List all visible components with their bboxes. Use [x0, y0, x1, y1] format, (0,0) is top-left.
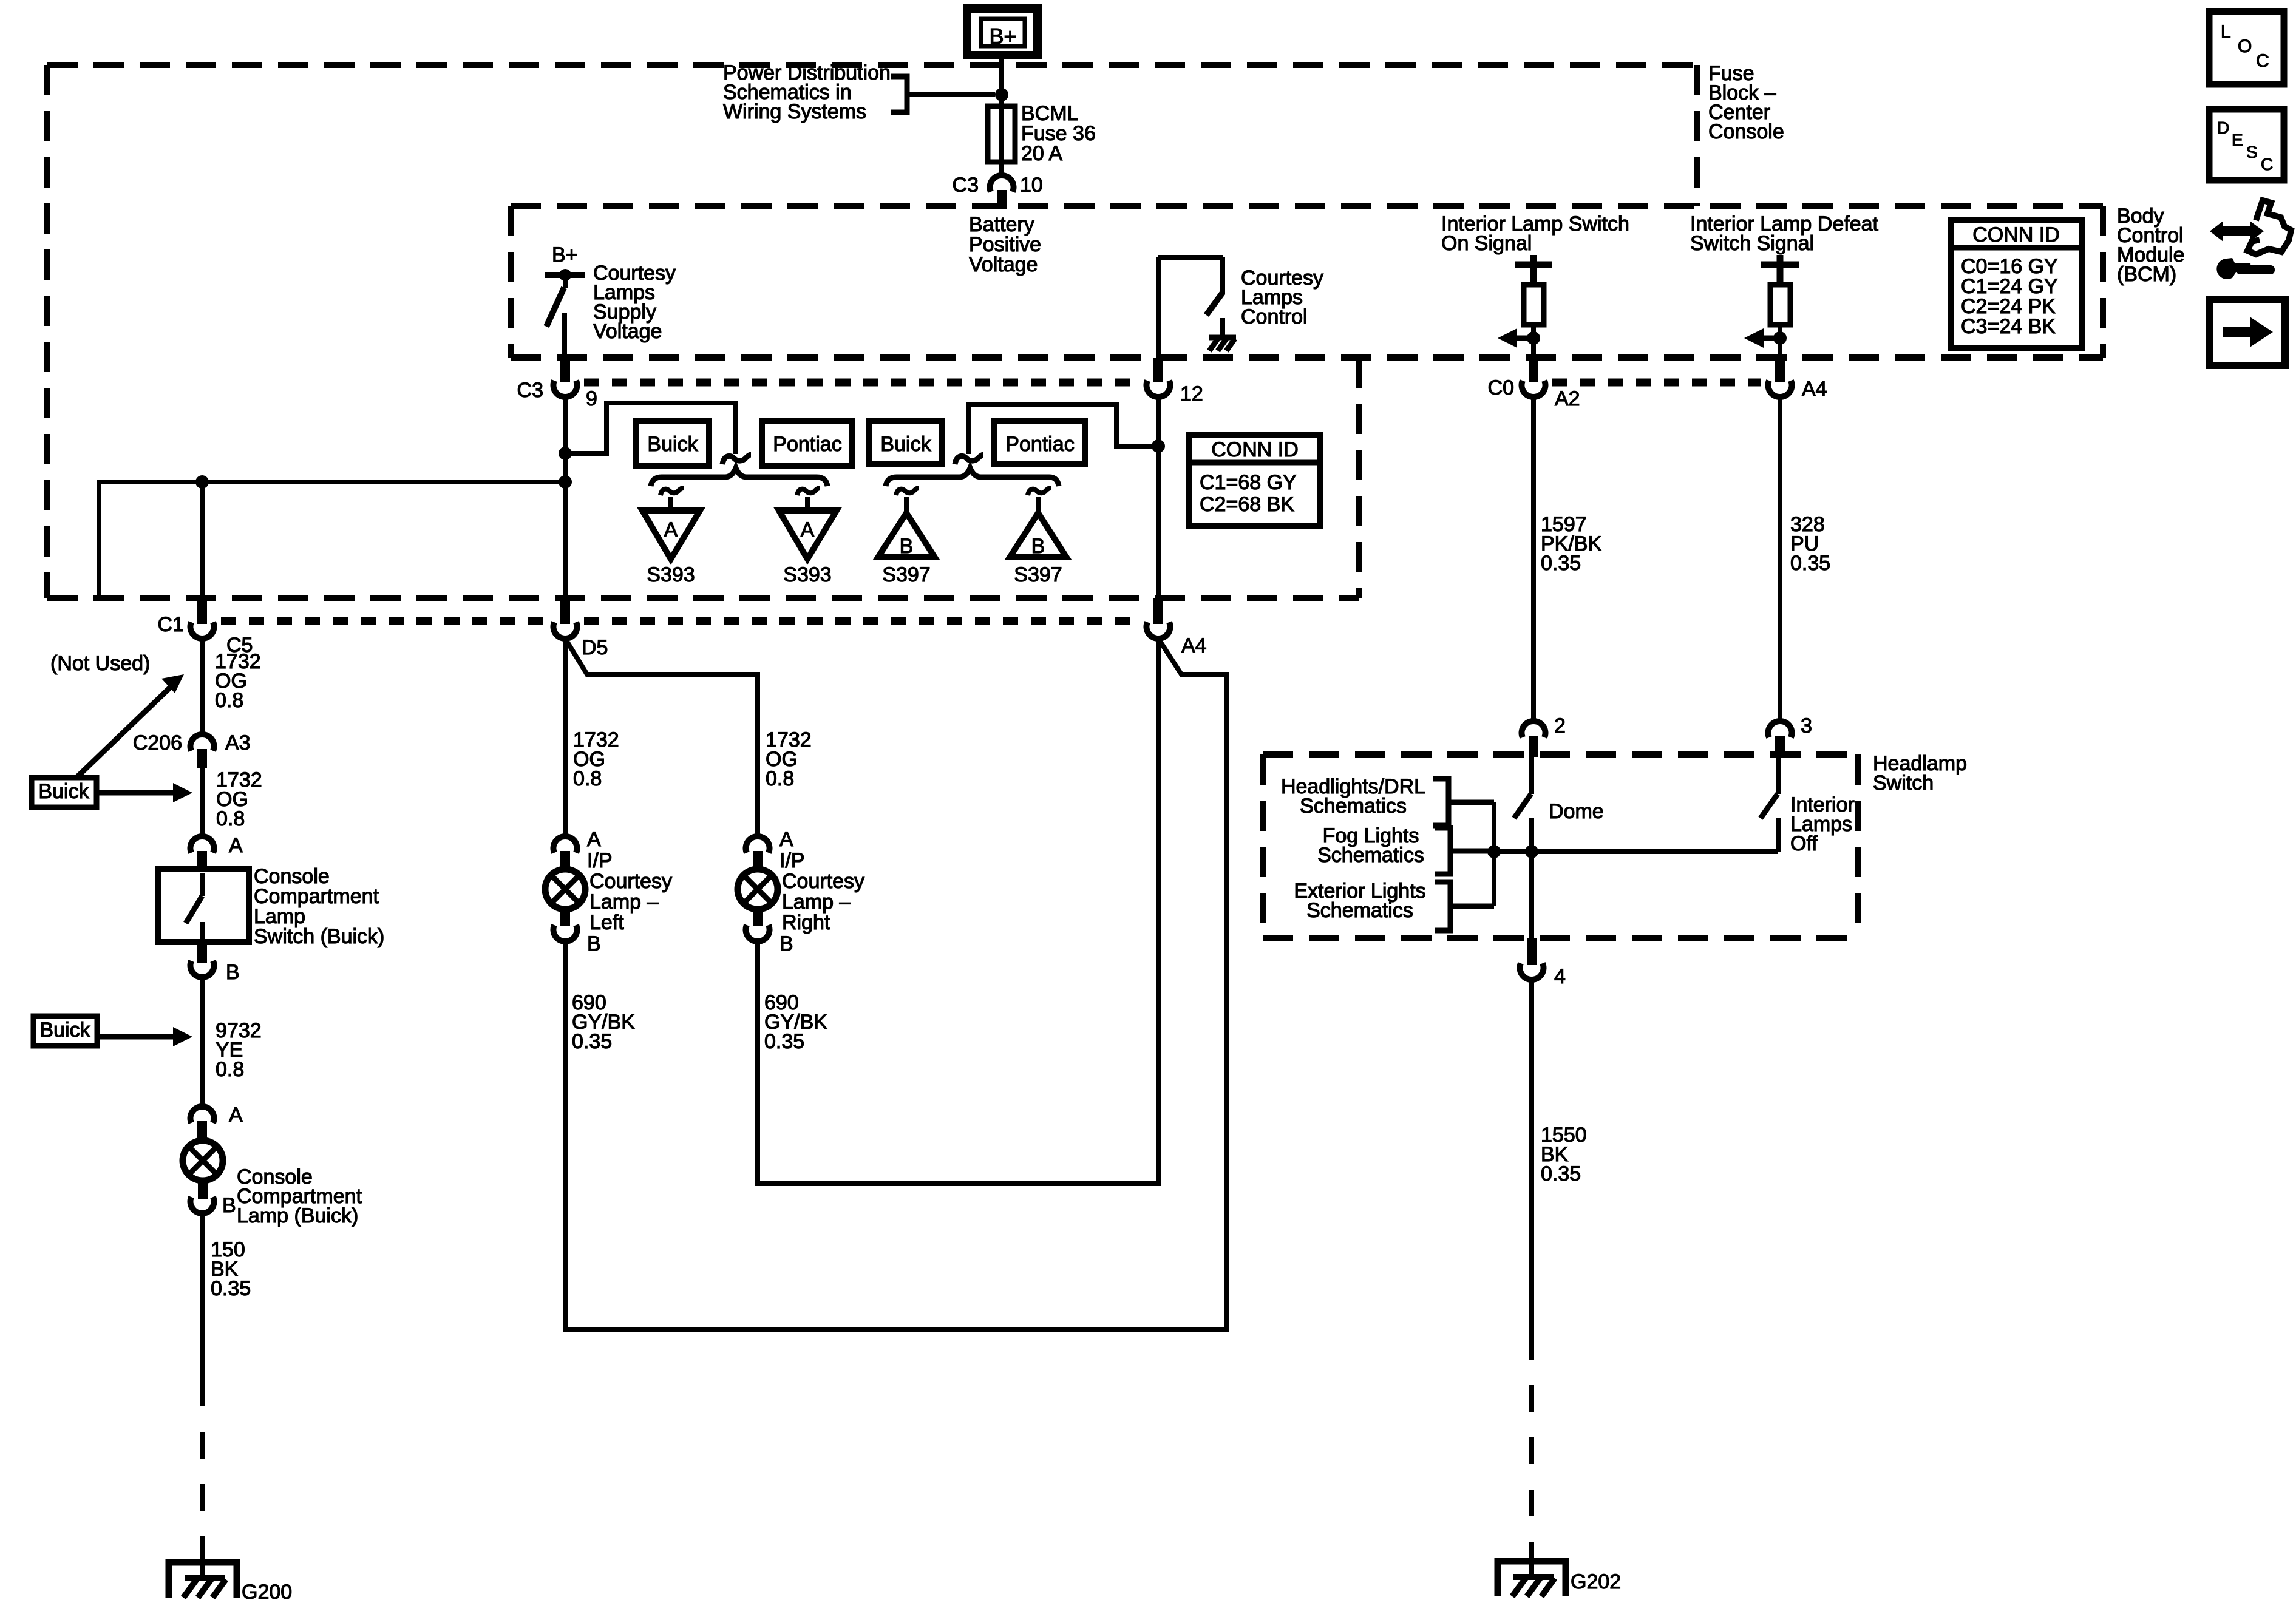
svg-text:B: B [587, 932, 601, 955]
svg-text:Voltage: Voltage [969, 253, 1038, 276]
headlamp switch dashed box [1263, 754, 1858, 938]
wire label 1732 OG 0.8 (left) [573, 728, 619, 790]
svg-text:10: 10 [1020, 174, 1043, 197]
console compartment lamp label [237, 1165, 362, 1227]
svg-text:I/P: I/P [779, 849, 805, 872]
fuse block - center console dashed box [47, 65, 1697, 598]
svg-text:Wiring Systems: Wiring Systems [723, 100, 866, 123]
svg-text:B+: B+ [552, 243, 578, 266]
wire C3-9 down to D5 [563, 397, 568, 600]
svg-text:S: S [2246, 143, 2258, 161]
svg-text:A2: A2 [1555, 387, 1580, 410]
power distribution label [723, 61, 891, 123]
wire 150 BK solid [200, 1213, 205, 1380]
svg-text:Pontiac: Pontiac [773, 433, 841, 456]
wire label 690 GY/BK 0.35 [572, 991, 635, 1053]
connector C3 pin 12 [1147, 358, 1170, 397]
BCM internal ground [1209, 337, 1236, 351]
svg-text:C206: C206 [133, 731, 182, 754]
BCM pull-up resistor (defeat signal) [1761, 255, 1799, 358]
svg-text:Buick: Buick [38, 780, 89, 803]
svg-text:Control: Control [1241, 305, 1308, 328]
node junction bracket bus [1487, 845, 1501, 858]
svg-text:A: A [801, 518, 815, 541]
wire hump to S397 splices [968, 405, 1152, 454]
svg-text:Left: Left [589, 911, 624, 934]
wire label 9732 YE 0.8 [216, 1019, 262, 1081]
node arrow (defeat signal input) [1744, 328, 1787, 348]
wire west to C1 connector and not-used [99, 482, 565, 598]
svg-text:0.35: 0.35 [1541, 1162, 1581, 1185]
svg-text:C3: C3 [517, 379, 543, 402]
svg-text:Courtesy: Courtesy [782, 870, 864, 893]
node junction hump2 [1152, 439, 1165, 453]
svg-text:Voltage: Voltage [593, 320, 662, 343]
svg-text:A: A [779, 828, 793, 851]
svg-text:Buick: Buick [880, 433, 931, 456]
interior lamps off switch [1761, 757, 1778, 852]
wire hump to S393 splices [565, 403, 736, 454]
headlights/DRL schematics label [1281, 775, 1425, 818]
wire label 150 BK 0.35 [211, 1238, 251, 1300]
I/P courtesy lamp left [545, 869, 585, 926]
svg-text:0.8: 0.8 [216, 807, 245, 830]
connector C1 pin A4 [1147, 598, 1170, 639]
svg-text:Off: Off [1790, 832, 1818, 855]
fuse block label [1708, 62, 1784, 143]
svg-text:Right: Right [782, 911, 830, 934]
wire 150 BK dashed [200, 1380, 205, 1545]
svg-text:C2=68 BK: C2=68 BK [1200, 493, 1294, 516]
connector A (I/P lamp left) [554, 836, 577, 869]
svg-text:C: C [2261, 155, 2273, 174]
node junction dome contact [1525, 845, 1538, 858]
Buick callout box 2 [33, 1016, 97, 1046]
svg-text:G200: G200 [242, 1581, 292, 1604]
svg-text:Schematics: Schematics [1317, 844, 1424, 867]
I/P courtesy lamp left label [587, 849, 672, 934]
wire fuse to connector C3 pin 10 [999, 162, 1004, 176]
svg-text:B: B [226, 961, 240, 984]
courtesy lamps control label [1241, 266, 1323, 328]
wire dome to connector 4 [1529, 852, 1534, 938]
connector B (I/P lamp left) [554, 925, 577, 941]
svg-text:Buick: Buick [647, 433, 698, 456]
svg-text:S397: S397 [882, 563, 930, 586]
exterior lights schematics label [1294, 880, 1425, 922]
svg-text:Courtesy: Courtesy [589, 870, 672, 893]
interior lamp switch on signal label [1441, 212, 1629, 255]
console compartment lamp switch [158, 869, 249, 942]
wire A4 to connector 3 (328 PU) [1778, 397, 1782, 721]
svg-text:Switch: Switch [1873, 771, 1934, 795]
courtesy lamps control switch [1158, 257, 1223, 358]
ground G202 [1498, 1545, 1566, 1596]
svg-text:S393: S393 [783, 563, 831, 586]
wire branch down to C1-C5 [200, 482, 205, 598]
I/P courtesy lamp right label [779, 849, 864, 934]
BCM label [2117, 205, 2185, 286]
svg-text:Lamp –: Lamp – [782, 890, 851, 914]
vehicle service icon [2210, 200, 2291, 279]
BCM dashed box [511, 206, 2103, 358]
svg-text:0.35: 0.35 [764, 1030, 804, 1053]
Buick box (S393) [636, 421, 709, 466]
wire label 1732 OG 0.8 [216, 768, 262, 830]
svg-text:20 A: 20 A [1021, 142, 1062, 165]
BCM connector C0 dotted line [1552, 379, 1761, 387]
fuse BCML Fuse 36 20A [988, 106, 1015, 162]
power distribution callout bracket [891, 76, 995, 112]
break tilde S397 [955, 455, 983, 464]
node junction at fuse top [995, 88, 1008, 101]
wire 12 down to A4 [1156, 397, 1161, 600]
svg-text:A: A [229, 834, 243, 857]
wire label 1732 OG 0.8 (right) [766, 728, 812, 790]
connector A (console lamp switch) [191, 836, 214, 869]
LOC reference box [2209, 12, 2284, 84]
arrow to lower wire [97, 783, 192, 802]
fuse block CONN ID table [1189, 435, 1320, 526]
svg-text:Switch Signal: Switch Signal [1690, 232, 1814, 255]
svg-text:0.8: 0.8 [216, 1058, 244, 1081]
courtesy lamps supply voltage switch [545, 269, 585, 358]
connector C206 pin A3 [190, 734, 214, 768]
connector B (I/P lamp right) [746, 925, 770, 941]
headlights/DRL schematics bracket [1433, 779, 1494, 825]
connector B (console lamp) [191, 1197, 214, 1213]
svg-text:0.8: 0.8 [766, 767, 794, 790]
node junction C1-C5 branch [195, 475, 209, 489]
fog lights schematics label [1317, 824, 1424, 867]
svg-text:Buick: Buick [39, 1019, 90, 1042]
svg-text:0.35: 0.35 [1790, 552, 1830, 575]
console compartment lamp [183, 1141, 223, 1199]
connector C0 pin A2 [1522, 358, 1546, 397]
wire 1732 OG to C206 [200, 639, 205, 734]
node junction to not-used / C1-C5 [559, 475, 572, 489]
DESC reference box [2209, 109, 2284, 180]
break tilde S393 [722, 455, 751, 464]
svg-text:C3: C3 [953, 174, 979, 197]
Pontiac box (S393) [762, 421, 852, 466]
svg-text:4: 4 [1554, 965, 1566, 988]
wire 9732 YE [200, 977, 205, 1107]
connector 3 [1768, 721, 1792, 757]
svg-text:Lamp (Buick): Lamp (Buick) [237, 1204, 358, 1227]
svg-text:D5: D5 [582, 636, 608, 659]
Buick callout box 1 [32, 778, 97, 807]
node arrow (on signal input) [1498, 328, 1540, 348]
wire D5 diagonal to right branch [565, 639, 758, 836]
connector A (I/P lamp right) [746, 836, 770, 869]
wire label 1732 OG 0.8 [215, 650, 261, 712]
svg-text:B: B [222, 1194, 236, 1217]
I/P courtesy lamp right [738, 869, 778, 926]
svg-text:C3=24 BK: C3=24 BK [1961, 315, 2056, 338]
svg-text:2: 2 [1554, 714, 1566, 737]
svg-text:Pontiac: Pontiac [1005, 433, 1074, 456]
wire B+ to fuse [999, 55, 1004, 109]
console compartment lamp switch label [254, 865, 384, 948]
svg-text:0.35: 0.35 [572, 1030, 612, 1053]
arrow to upper wire [77, 674, 184, 777]
svg-text:B: B [779, 932, 793, 955]
svg-text:0.35: 0.35 [1541, 552, 1581, 575]
svg-text:Dome: Dome [1549, 800, 1604, 823]
interior lamps off label [1790, 793, 1855, 855]
arrow to 9732 wire [97, 1027, 192, 1046]
wire A4 diagonal to outer loop [565, 639, 1226, 1329]
next-page arrow box [2209, 300, 2285, 365]
B+ power feed box [967, 8, 1038, 55]
svg-text:I/P: I/P [587, 849, 613, 872]
svg-text:O: O [2238, 36, 2252, 56]
svg-text:Switch (Buick): Switch (Buick) [254, 925, 384, 948]
svg-text:9: 9 [586, 387, 597, 410]
wire label 690 GY/BK 0.35 [764, 991, 827, 1053]
wire label 328 PU 0.35 [1790, 513, 1830, 575]
svg-text:Schematics: Schematics [1306, 899, 1413, 922]
ground G200 [169, 1545, 237, 1598]
brace S393 [651, 468, 827, 486]
wire label 1597 PK/BK 0.35 [1541, 513, 1601, 575]
wire 1550 BK dashed [1529, 1333, 1534, 1545]
svg-text:0.8: 0.8 [215, 689, 243, 712]
svg-text:CONN ID: CONN ID [1211, 438, 1299, 461]
svg-text:0.8: 0.8 [573, 767, 602, 790]
BCM connector C3 dotted line [584, 379, 1140, 387]
svg-text:0.35: 0.35 [211, 1277, 251, 1300]
dome switch [1514, 757, 1532, 852]
connector B (console lamp switch) [191, 942, 214, 977]
Pontiac box (S397) [994, 421, 1085, 464]
splice S393 (Buick) [642, 488, 700, 559]
svg-text:12: 12 [1180, 382, 1203, 405]
svg-text:A4: A4 [1802, 378, 1827, 401]
exterior lights schematics bracket [1435, 882, 1494, 931]
connector C3 pin 10 [990, 175, 1014, 209]
svg-text:A: A [229, 1103, 243, 1127]
connector 4 [1520, 938, 1544, 980]
svg-text:C1=68 GY: C1=68 GY [1200, 471, 1297, 494]
svg-text:A3: A3 [225, 731, 251, 754]
headlamp switch label [1873, 752, 1967, 795]
svg-text:C: C [2256, 51, 2269, 71]
wire switch common [1494, 849, 1778, 854]
node junction hump1 [559, 447, 572, 460]
wire D5 to left lamp [563, 639, 568, 836]
svg-text:B+: B+ [989, 24, 1016, 49]
connector C3 pin 9 [554, 358, 577, 397]
splice S397 (Pontiac) [1010, 488, 1066, 558]
svg-text:S393: S393 [647, 563, 695, 586]
courtesy lamps supply voltage label [593, 262, 676, 343]
splice S393 (Pontiac) [779, 488, 837, 559]
svg-text:S397: S397 [1014, 563, 1062, 586]
svg-text:L: L [2221, 22, 2231, 42]
connector C1 pin C5 [190, 598, 214, 639]
battery positive voltage label [969, 213, 1041, 276]
svg-text:3: 3 [1801, 714, 1812, 737]
svg-text:(Not Used): (Not Used) [50, 652, 150, 675]
svg-text:D: D [2217, 118, 2229, 137]
BCM CONN ID table [1951, 220, 2082, 348]
svg-text:C1: C1 [158, 613, 184, 636]
wire 1550 BK solid [1529, 980, 1534, 1333]
svg-text:A: A [664, 518, 678, 541]
svg-text:(BCM): (BCM) [2117, 263, 2176, 286]
svg-text:G202: G202 [1571, 1570, 1621, 1593]
connector C0 pin A4 [1768, 358, 1792, 397]
Buick box (S397) [869, 421, 942, 464]
brace S397 [886, 468, 1059, 486]
svg-text:A4: A4 [1181, 634, 1207, 657]
svg-text:Lamp –: Lamp – [589, 890, 658, 914]
svg-text:B: B [1031, 535, 1045, 558]
connector A (console lamp) [191, 1107, 214, 1141]
connector C1 pin D5 [554, 598, 577, 639]
wire 1732 OG to switch [200, 768, 205, 836]
wire A2 to connector 2 (1597 PK/BK) [1531, 397, 1536, 721]
svg-text:Schematics: Schematics [1300, 795, 1407, 818]
wire bracket bus vertical [1492, 802, 1496, 906]
svg-text:Console: Console [1708, 120, 1784, 143]
fuse label [1021, 102, 1096, 165]
svg-text:B: B [900, 535, 914, 558]
svg-text:E: E [2232, 131, 2243, 149]
wire label 1550 BK 0.35 [1541, 1124, 1587, 1185]
fog lights schematics bracket [1435, 828, 1494, 874]
svg-text:C0: C0 [1488, 376, 1514, 399]
svg-text:A: A [587, 828, 601, 851]
connector 2 [1522, 721, 1546, 757]
wire right lamp return to A4 [758, 639, 1158, 1184]
BCM pull-up resistor (on signal) [1515, 255, 1552, 358]
fuse block connector C1 dotted line [221, 617, 1140, 625]
svg-text:On Signal: On Signal [1441, 232, 1532, 255]
interior lamp defeat switch signal label [1690, 212, 1878, 255]
splice S397 (Buick) [878, 488, 934, 558]
svg-text:CONN ID: CONN ID [1972, 223, 2060, 246]
